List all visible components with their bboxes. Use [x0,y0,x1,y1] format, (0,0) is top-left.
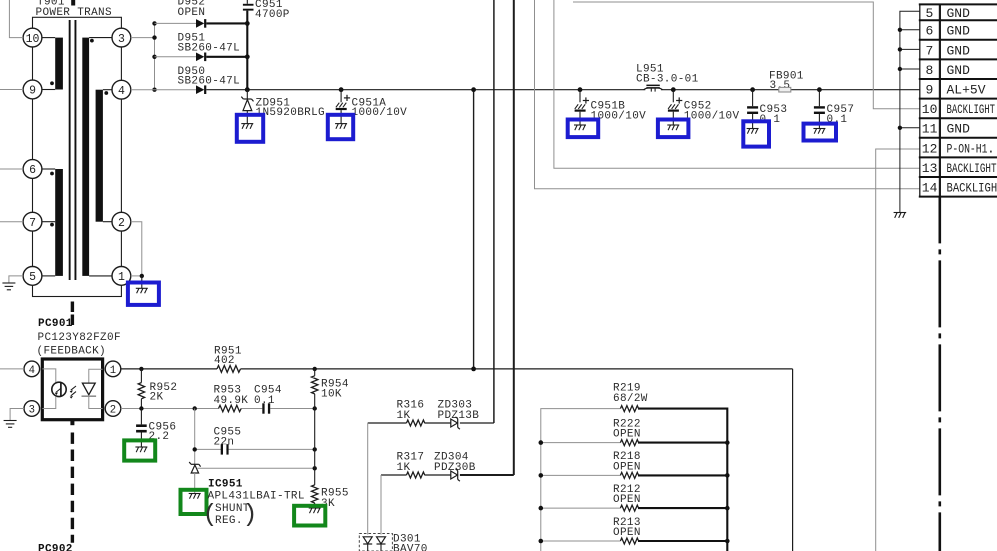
wire ZD304 net vertical [513,0,515,475]
svg-text:IC951: IC951 [208,479,243,491]
pin 9 [23,80,42,99]
PC901 internal LED [82,369,103,408]
label C956 [149,422,177,443]
svg-text:12: 12 [922,141,938,156]
node gnd bus pin8 [898,67,902,71]
resistor R954 [312,369,318,409]
svg-text:PC901: PC901 [38,318,73,330]
svg-text:7: 7 [29,217,36,230]
svg-text:4: 4 [118,85,125,98]
label C952 [684,101,740,123]
connector CN901 table [919,4,997,197]
node pin2-net divider [193,406,197,410]
resistor R955 [312,468,318,508]
optocoupler PC901 body [42,359,102,420]
svg-text:2: 2 [118,217,125,230]
label C951B [591,101,647,123]
svg-text:11: 11 [922,122,938,137]
svg-text:BACKLIGHT: BACKLIGHT [947,181,997,196]
ground (transformer pins 1,2) [136,276,148,293]
pin 5 [23,267,42,286]
winding 3-1 [82,38,112,276]
wire pin14 net [535,0,920,189]
node pin1-net R952 [139,367,143,371]
svg-text:PDZ30B: PDZ30B [434,462,476,474]
label FB901 [769,71,804,93]
svg-text:GND: GND [947,24,971,39]
resistor R951 [217,366,240,373]
svg-text:BACKLIGHT: BACKLIGHT [947,161,997,176]
shunt regulator IC951 [189,462,200,494]
highlight box (blue) C951B ground [568,120,599,138]
capacitor C954 [262,403,270,413]
capacitor C952 (electrolytic) [668,90,682,125]
ladder right bus (thick) [638,409,727,551]
wire AL+5V sense vertical [473,90,475,369]
wire pin1 net (feedback top) [121,369,793,551]
svg-text:OPEN: OPEN [178,7,206,19]
node bus row1 [152,21,156,25]
wire pin3 to diode bus [131,37,155,39]
node R213 left [539,539,544,544]
capacitor C953 [747,90,758,129]
svg-text:5: 5 [926,6,934,21]
svg-text:3: 3 [29,405,35,417]
svg-text:68/2W: 68/2W [613,393,648,405]
gnd bus (connector) [900,11,920,212]
highlight box (green) C956 ground [124,440,155,460]
wire pin3 to ground [10,409,24,421]
wire pin7 to left edge [0,221,23,223]
optocoupler link dashes (above PC901) [71,302,74,326]
transformer core axis tick [71,0,75,6]
label R955 [321,488,349,511]
ground (C956) [135,447,147,452]
svg-text:GND: GND [947,63,971,78]
pin 4 (PC901) [24,361,40,377]
resistor R316 [407,420,425,426]
ferrite bead L951 [644,85,663,92]
node pin2-net R954 [313,406,317,410]
ground (C951A) [335,124,347,129]
svg-text:13: 13 [922,161,938,176]
wire D952 to C951 bus [206,22,247,24]
node gnd bus pin6 [898,28,902,32]
label ZD304 [434,452,476,475]
label IC951 [203,479,305,530]
PC901 light arrows [70,386,76,399]
wire pin9 to left edge [0,89,23,91]
label L951 [636,64,699,86]
svg-text:GND: GND [947,6,971,21]
pin 1 (PC901) [105,361,121,377]
winding 10-9 polarity dot [50,81,54,85]
wire pin4 to left edge [0,368,24,370]
pin 2 (PC901) [105,401,121,417]
node C955 right [313,447,317,451]
pin 10 [23,28,42,47]
label R212 [613,484,641,506]
ground (transformer pin 5) [2,283,15,290]
node bus pin3 [152,35,156,39]
svg-text:5: 5 [29,271,36,284]
node pin1-net R954 [313,367,317,371]
wire ZD304 to net (thick) [460,474,514,476]
ground (C957) [813,129,825,134]
node pin2-net C956 [139,406,143,410]
node ref net R955 [313,466,317,470]
row R222 [541,440,728,446]
svg-text:PC902: PC902 [38,544,73,551]
capacitor C951A (electrolytic) [336,90,350,124]
wire pin2 down to pin1 net [131,222,142,276]
node rail C951A [339,87,344,92]
row R213 [541,538,728,544]
highlight box (blue) C952 ground [658,120,689,138]
pin 6 [23,160,42,179]
label C953 [760,104,788,126]
svg-text:1: 1 [118,271,125,284]
svg-text:8: 8 [926,63,934,78]
capacitor C955 [221,444,229,454]
node R218 right [725,473,730,478]
diode D301 box (dashed) [359,534,392,551]
label D952 [178,0,206,19]
label R213 [613,517,641,539]
diode D950 [196,85,206,94]
node R213 right [725,539,730,544]
svg-text:3: 3 [118,33,125,46]
svg-text:4700P: 4700P [255,9,290,21]
wire to D952 [155,22,197,24]
winding 6-7-5 [42,169,63,276]
label ZD951 [256,97,326,119]
node rail C953 [750,87,755,92]
svg-text:(: ( [203,500,218,529]
main +5V rail [206,89,920,91]
svg-text:6: 6 [29,164,36,177]
ground (C952) [667,125,679,130]
node rail C952 [671,87,676,92]
svg-text:BAV70: BAV70 [393,544,428,551]
node R212 right [725,506,730,511]
PC901 internal phototransistor [42,369,66,409]
wire ZD303 net vertical [493,0,495,423]
node rail ZD951 [245,87,250,92]
wire pin12 P-ON net [876,149,920,551]
node gnd bus pin11 [898,126,902,130]
label PC901 [37,318,121,358]
row R218 [541,472,728,478]
label D951 [178,33,241,55]
transformer T901 body [33,17,122,296]
highlight box (blue) C953 ground [743,121,769,146]
C951 output bus vertical [246,11,248,90]
ground (C953) [747,129,759,134]
wire backlight top net [573,2,920,109]
label R316 [397,400,425,423]
resistor R952 [138,369,144,409]
label C951A [352,97,408,119]
node R212 left [539,506,544,511]
diode D301 element B [377,537,386,551]
svg-text:1000/10V: 1000/10V [352,107,408,119]
svg-text:): ) [243,500,258,529]
node R222 right [725,440,730,445]
label R952 [150,382,178,404]
capacitor C951B (electrolytic) [575,90,589,125]
label R953 C954 [214,385,282,408]
svg-text:4: 4 [29,365,35,377]
node gnd bus pin7 [898,47,902,51]
svg-text:1: 1 [110,365,116,377]
svg-text:(FEEDBACK): (FEEDBACK) [37,346,107,358]
label R219 [613,383,648,405]
diode D952 [196,19,206,28]
ground (R955) [309,508,321,513]
node R218 left [539,473,544,478]
wire C955 net [195,448,315,450]
board boundary dash-dot line [938,196,941,551]
optocoupler link dashes (below PC901) [70,421,74,543]
row R212 [541,505,728,511]
svg-text:1000/10V: 1000/10V [684,111,740,123]
node R222 left [539,440,544,445]
resistor R219 [620,406,638,412]
transformer T901 label [36,0,113,19]
zener ZD951 [241,90,253,124]
diode D951 [196,53,206,62]
capacitor C951 [243,0,254,11]
label D950 [178,66,241,88]
label ZD303 [438,400,480,423]
pin 4 [112,80,131,99]
diode D301 element A [363,537,372,551]
label R951 [214,346,242,368]
winding 4-2 [96,90,112,222]
svg-text:REG.: REG. [215,515,243,527]
svg-text:14: 14 [922,181,938,196]
wire to D951 [155,56,197,58]
winding 10-9 [42,38,63,90]
svg-text:1N5920BRLG: 1N5920BRLG [256,107,326,119]
label R218 [613,451,641,473]
node bus row2 [152,55,156,59]
highlight box (blue) C951A ground [328,115,353,139]
wire R317 row [381,474,451,476]
node C951 bus rail [245,87,250,92]
svg-text:2K: 2K [150,392,164,404]
label R317 [397,452,425,475]
svg-text:AL+5V: AL+5V [947,83,986,98]
svg-text:SB260-47L: SB260-47L [178,42,241,54]
node C951 bus row2 [245,54,250,59]
capacitor C956 [136,409,147,448]
highlight box (green) IC951 ground [181,490,207,514]
wire pin13 net [554,0,920,168]
wire R316 row [368,422,494,424]
label D301 [393,534,428,551]
ladder left bus [541,409,620,551]
wire pin5 to ground [9,276,23,283]
ground (PC901 pin3) [4,421,17,428]
resistor R953 [219,405,242,411]
capacitor C957 [814,90,825,129]
label R222 [613,418,641,440]
svg-text:CB-3.0-01: CB-3.0-01 [636,74,699,86]
wire divider vertical [194,409,196,465]
node rail C951B [578,87,583,92]
zener ZD304 [451,469,460,481]
highlight box (green) R955 ground [294,506,325,526]
node rail C957 [817,87,822,92]
node rail sense [471,87,476,92]
winding 6 polarity dot [50,172,54,176]
winding 4 polarity dot [104,91,108,95]
wire pin10 to top edge [9,0,23,38]
wire pin4 to D950 [131,89,196,91]
svg-text:PC123Y82FZ0F: PC123Y82FZ0F [38,332,121,344]
pin 2 [112,212,131,231]
pin 3 [112,28,131,47]
winding 3 polarity dot [90,39,94,43]
ferrite bead FB901 [779,87,791,92]
node C955 left [193,447,197,451]
svg-text:2: 2 [110,405,116,417]
wire IC951 ref net [198,467,315,469]
pin 1 [112,267,131,286]
svg-text:10: 10 [922,102,938,117]
wire pin2 net [121,408,315,410]
label C955 [214,427,242,449]
highlight box (blue) around pins1-2 ground [128,283,159,305]
wire D951 to C951 bus [206,56,247,58]
node pin1-net sense junction [471,367,476,372]
wire pin6 to left edge [0,168,23,170]
highlight box (blue) C957 ground [804,124,837,141]
wire pin1 to ground [131,275,142,277]
label C957 [827,104,855,126]
svg-text:10: 10 [26,33,40,46]
highlight box (blue) ZD951 ground [237,115,263,142]
diode bus vertical [154,23,156,89]
svg-text:BACKLIGHT: BACKLIGHT [947,102,996,117]
resistor R317 [407,472,425,478]
node C951 bus row1 [245,21,250,26]
wire R316 drop to D301 [367,423,369,535]
pin 3 (PC901) [24,401,40,417]
pin 7 [23,212,42,231]
svg-text:SB260-47L: SB260-47L [178,76,241,88]
node pin1/pin2 junction [140,274,144,278]
svg-text:10K: 10K [321,389,342,401]
transformer core [69,20,77,280]
svg-text:9: 9 [29,85,36,98]
ground (connector gnd bus) [894,213,907,218]
svg-text:GND: GND [947,43,971,58]
ground (C951B) [574,125,586,130]
svg-text:6: 6 [926,24,934,39]
svg-text:.: . [987,141,995,156]
ground (IC951) [189,494,201,499]
svg-text:7: 7 [926,43,934,58]
node bus row3 [152,88,156,92]
svg-text:P-ON-H1: P-ON-H1 [947,141,988,156]
svg-text:9: 9 [926,83,934,98]
zener ZD303 [451,417,460,429]
svg-text:PDZ13B: PDZ13B [438,410,480,422]
label C951 [255,0,290,21]
winding 7 polarity dot [50,223,54,227]
wire R317 drop to D301 [380,475,382,535]
svg-text:GND: GND [947,122,971,137]
label R954 [321,379,349,401]
ground (ZD951) [241,124,253,129]
wire R954 to ref node [314,409,316,469]
